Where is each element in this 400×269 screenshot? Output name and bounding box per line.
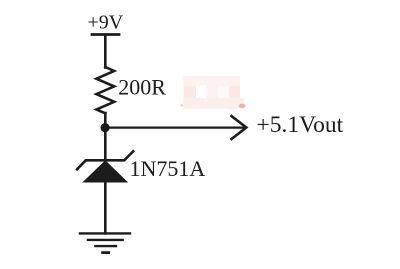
wire: zener anode to ground — [104, 182, 107, 233]
node: output junction — [101, 123, 110, 132]
zener diode 1N751A : anode triangle — [82, 160, 128, 182]
svg-text:1N751A: 1N751A — [130, 156, 206, 181]
svg-text:+5.1Vout: +5.1Vout — [257, 112, 344, 138]
svg-text:200R: 200R — [118, 74, 166, 99]
output arrow head — [231, 115, 247, 140]
resistor 200R — [96, 67, 114, 113]
+9V supply terminal bar — [92, 33, 119, 36]
svg-text:+9V: +9V — [88, 12, 124, 34]
wire: node to zener cathode — [104, 128, 107, 160]
wire: node to output arrow — [105, 126, 244, 128]
ground symbol — [80, 233, 130, 252]
zener diode 1N751A : cathode bar with bent ends — [77, 151, 133, 169]
wire: resistor to output node — [104, 113, 107, 128]
faint pink watermark (decorative) — [180, 76, 245, 109]
wire: +9V terminal to resistor — [104, 35, 107, 68]
